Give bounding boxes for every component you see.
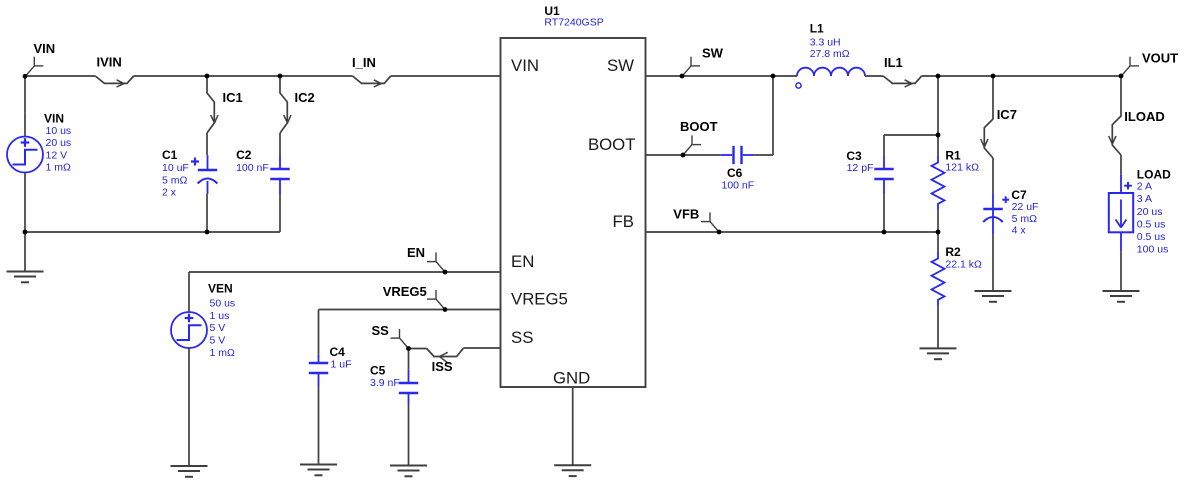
svg-text:27.8 mΩ: 27.8 mΩ: [810, 48, 850, 60]
C2 labels: [236, 148, 269, 174]
current probe IL1: [883, 55, 921, 87]
wire EN pin to VEN: [189, 271, 501, 273]
wire C5 to ground: [408, 405, 410, 466]
wire SW down to C6: [772, 76, 774, 155]
svg-text:LOAD: LOAD: [1137, 167, 1171, 181]
svg-text:SS: SS: [511, 328, 533, 347]
svg-text:VIN: VIN: [34, 41, 56, 56]
svg-text:EN: EN: [511, 252, 534, 271]
svg-text:ILOAD: ILOAD: [1124, 109, 1164, 124]
svg-text:121 kΩ: 121 kΩ: [945, 162, 979, 174]
svg-text:VIN: VIN: [511, 56, 539, 75]
capacitor C4: [309, 355, 328, 387]
ground below LOAD: [1103, 291, 1140, 302]
svg-text:R2: R2: [945, 245, 961, 259]
wire SW pin to node: [646, 75, 774, 77]
svg-text:100 nF: 100 nF: [236, 162, 269, 174]
wire VFB to C3 bottom: [719, 231, 884, 233]
svg-text:100 us: 100 us: [1137, 244, 1169, 256]
svg-text:1 uF: 1 uF: [331, 359, 352, 371]
svg-text:GND: GND: [553, 369, 590, 388]
svg-text:C6: C6: [727, 166, 743, 180]
wire C7 node to VOUT: [993, 75, 1121, 77]
wire C7 to ground: [992, 234, 994, 291]
resistor R2: [932, 232, 945, 348]
current probe IC1: [207, 76, 243, 133]
svg-text:C5: C5: [370, 364, 386, 378]
wire C2 node to I_IN probe: [280, 75, 353, 77]
svg-text:1 mΩ: 1 mΩ: [210, 347, 236, 359]
R2 labels: [945, 245, 982, 271]
wire EN corner down: [188, 272, 190, 292]
node EN label: [407, 245, 445, 272]
current source LOAD: [1109, 182, 1133, 232]
node VFB label: [673, 206, 719, 232]
ground below R2: [920, 348, 957, 359]
svg-text:3.3 uH: 3.3 uH: [810, 36, 841, 48]
C3 labels: [846, 149, 873, 174]
svg-text:22 uF: 22 uF: [1012, 201, 1039, 213]
C1 labels: [162, 148, 189, 199]
C6 labels: [722, 166, 755, 192]
current probe ISS: [427, 348, 464, 374]
svg-text:50 us: 50 us: [210, 298, 236, 310]
svg-text:BOOT: BOOT: [680, 119, 718, 134]
svg-text:2 x: 2 x: [162, 187, 177, 199]
node SS label: [372, 323, 409, 349]
svg-text:VOUT: VOUT: [1142, 51, 1178, 66]
svg-text:0.5 us: 0.5 us: [1137, 231, 1166, 243]
wire top rail left segment: [25, 75, 95, 77]
svg-text:IL1: IL1: [884, 55, 903, 70]
svg-text:12 pF: 12 pF: [847, 162, 874, 174]
wire LOAD to ground: [1120, 232, 1122, 291]
svg-text:5 V: 5 V: [210, 322, 226, 334]
current probe ILOAD: [1109, 76, 1165, 155]
U1 reference labels: [544, 4, 603, 29]
svg-text:4 x: 4 x: [1012, 225, 1027, 237]
svg-text:C3: C3: [846, 149, 862, 163]
resistor R1: [932, 135, 945, 232]
svg-text:VFB: VFB: [673, 206, 699, 221]
wire VREG5 corner down: [318, 310, 320, 355]
svg-text:3.9 nF: 3.9 nF: [370, 377, 400, 389]
wire C1 node to C2 node: [207, 75, 280, 77]
svg-text:IVIN: IVIN: [97, 55, 122, 70]
inductor L1: [796, 68, 865, 88]
svg-text:1 us: 1 us: [210, 310, 230, 322]
svg-text:2 A: 2 A: [1137, 181, 1152, 193]
capacitor C3: [874, 135, 893, 232]
wire SS pin to ISS probe: [463, 347, 500, 349]
wire C3 tee: [884, 134, 938, 136]
svg-text:IC7: IC7: [997, 107, 1017, 122]
svg-text:IC2: IC2: [295, 90, 315, 105]
C5 labels: [370, 364, 400, 390]
svg-text:I_IN: I_IN: [352, 55, 376, 70]
capacitor C6: [720, 146, 754, 164]
svg-text:1 mΩ: 1 mΩ: [46, 162, 72, 174]
LOAD labels: [1137, 167, 1171, 255]
wire IVIN to C1 node: [134, 75, 207, 77]
capacitor C1: [191, 155, 217, 194]
wire C6 to SW vertical: [754, 154, 773, 156]
wire L1 to IL1: [865, 75, 883, 77]
svg-text:FB: FB: [613, 212, 634, 231]
wire C1 to bottom rail: [206, 194, 208, 232]
ground below U1: [554, 465, 591, 476]
svg-text:20 us: 20 us: [46, 137, 72, 149]
svg-text:C1: C1: [162, 148, 178, 162]
C7 labels: [1011, 188, 1038, 237]
svg-text:VIN: VIN: [44, 112, 64, 126]
svg-text:EN: EN: [407, 245, 425, 260]
voltage source VEN: [171, 292, 207, 365]
current probe IC2: [280, 76, 315, 133]
wire SW rail down to R1: [937, 76, 939, 135]
U1 GND pin wire: [572, 387, 574, 465]
bottom ground rail: [25, 231, 280, 233]
wire C4 to ground: [318, 387, 320, 465]
svg-text:C7: C7: [1011, 188, 1027, 202]
svg-text:C2: C2: [236, 148, 252, 162]
wire IC1 to C1: [206, 133, 208, 155]
op-amp U1 (IC box RT7240GSP): [501, 38, 646, 387]
svg-text:3 A: 3 A: [1137, 193, 1152, 205]
VEN labels: [208, 282, 235, 359]
svg-text:SW: SW: [607, 56, 634, 75]
svg-text:20 us: 20 us: [1137, 206, 1163, 218]
svg-text:10 uF: 10 uF: [162, 162, 189, 174]
svg-text:12 V: 12 V: [46, 149, 68, 161]
svg-text:R1: R1: [945, 148, 961, 162]
ground below VIN rail: [7, 232, 44, 282]
capacitor C7: [983, 194, 1009, 234]
voltage source VIN: [7, 112, 43, 200]
wire source VIN to bottom rail: [24, 200, 26, 232]
svg-text:ISS: ISS: [432, 359, 453, 374]
node BOOT label: [680, 119, 718, 155]
current probe I_IN: [352, 55, 391, 87]
svg-text:VEN: VEN: [208, 282, 233, 296]
svg-text:SS: SS: [372, 323, 390, 338]
wire SW node to L1: [773, 75, 797, 77]
current probe IC7: [981, 76, 1017, 158]
svg-text:C4: C4: [330, 345, 346, 359]
node VREG5 label: [383, 284, 445, 310]
svg-text:L1: L1: [810, 21, 824, 35]
svg-text:VREG5: VREG5: [383, 284, 427, 299]
wire IL1 to R1 node: [922, 75, 938, 77]
svg-text:BOOT: BOOT: [588, 135, 636, 154]
L1 labels: [810, 21, 850, 60]
svg-text:IC1: IC1: [223, 90, 243, 105]
wire VEN to ground: [188, 365, 190, 466]
ground below C5: [390, 466, 427, 477]
svg-text:10 us: 10 us: [46, 125, 72, 137]
svg-text:0.5 us: 0.5 us: [1137, 218, 1166, 230]
ground below C7: [975, 291, 1012, 302]
R1 labels: [945, 148, 979, 173]
wire I_IN to U1 VIN pin: [391, 75, 501, 77]
C4 labels: [330, 345, 352, 371]
svg-text:22.1 kΩ: 22.1 kΩ: [945, 259, 982, 271]
wire IC2 to C2: [279, 133, 281, 156]
current probe IVIN: [95, 55, 133, 88]
node VOUT label: [1121, 51, 1178, 77]
svg-text:VREG5: VREG5: [511, 290, 568, 309]
wire VIN rail down to source: [24, 76, 26, 112]
wire FB pin to VFB node: [646, 231, 720, 233]
capacitor C5: [399, 369, 418, 405]
wire VREG5 pin to C4: [319, 309, 501, 311]
wire IC7 to C7: [992, 158, 994, 194]
wire R1 node to C7 node: [938, 75, 993, 77]
wire SS node down to C5: [408, 349, 410, 370]
svg-text:5 mΩ: 5 mΩ: [162, 174, 188, 186]
node SW label: [682, 46, 724, 77]
wire BOOT pin: [646, 154, 721, 156]
wire ISS to SS node: [409, 348, 427, 350]
node VIN label: [25, 41, 55, 76]
wire C2 to bottom rail: [279, 194, 281, 232]
ground below C4: [300, 465, 337, 476]
wire ILOAD to LOAD: [1120, 155, 1122, 193]
svg-text:SW: SW: [702, 46, 724, 61]
svg-text:5 V: 5 V: [210, 335, 226, 347]
svg-text:5 mΩ: 5 mΩ: [1012, 213, 1038, 225]
svg-text:RT7240GSP: RT7240GSP: [544, 17, 603, 29]
svg-text:100 nF: 100 nF: [722, 180, 755, 192]
wire C3 bottom to R1/R2: [884, 231, 938, 233]
source VIN labels: [44, 112, 71, 174]
ground below VEN: [171, 466, 208, 477]
U1 pin labels: [511, 56, 636, 388]
capacitor C2: [270, 156, 289, 195]
